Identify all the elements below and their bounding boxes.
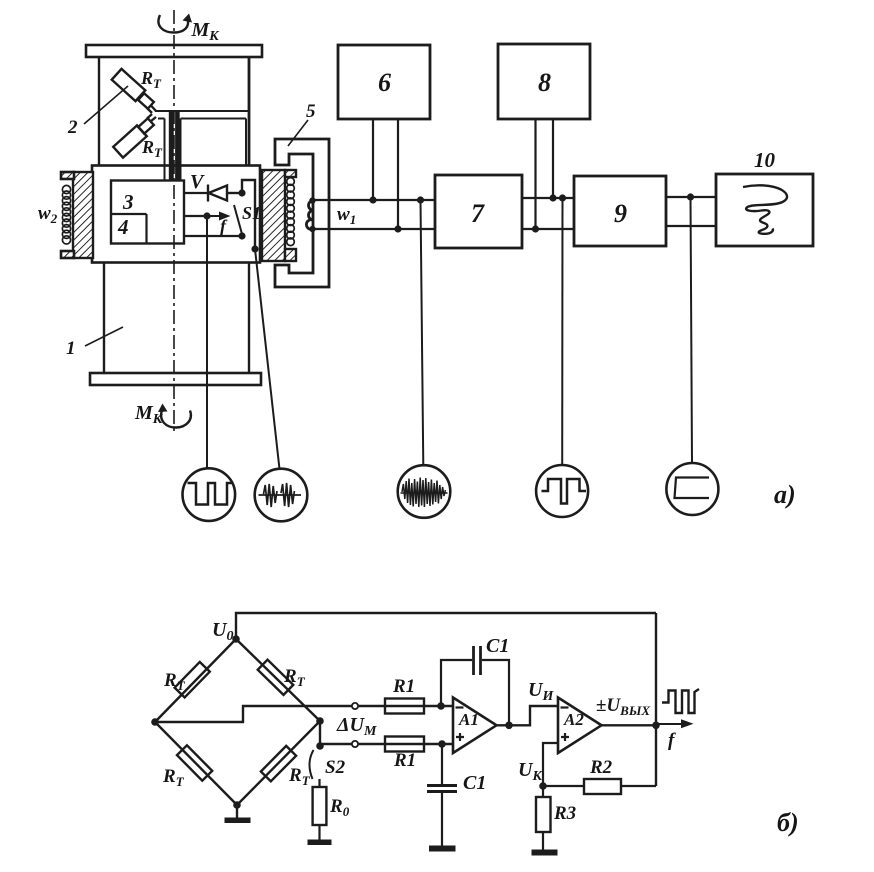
lower cylinder wall left: [103, 263, 105, 374]
output arrow f: [656, 719, 694, 751]
junction dot block6 left lead: [369, 196, 376, 203]
leader and label 5: [288, 101, 316, 146]
resistor R_T bottom-left: [177, 745, 212, 780]
drop wire to waveform circle 3: [421, 200, 424, 466]
lower output wire: [320, 743, 453, 745]
junction dot A1 inverting input: [437, 702, 445, 710]
drop wire to waveform circle 5: [691, 197, 693, 463]
main sensor housing block: [92, 166, 260, 263]
coil w2 turns: [62, 185, 70, 244]
signal bus top wire w1 to block 7: [313, 199, 436, 201]
resistor R1 upper: [385, 676, 424, 714]
resistor R_T top-left: [175, 662, 210, 698]
block 8: [498, 44, 590, 229]
wires block7 to block9: [522, 197, 574, 199]
junction dot block6 right lead: [394, 225, 401, 232]
arrow f: [207, 212, 231, 237]
svg-text:R2: R2: [589, 757, 613, 778]
svg-text:C1: C1: [486, 635, 509, 657]
junction dot diode-S1: [238, 189, 245, 196]
torque arrow M_K bottom: [134, 402, 191, 428]
right core coil turns: [287, 178, 295, 246]
svg-text:A1: A1: [458, 710, 479, 729]
junction dot circle4 tap: [559, 194, 566, 201]
leader and label 1: [66, 327, 123, 359]
bridge arm top-right: [236, 639, 320, 721]
bridge arm bottom-right: [237, 721, 320, 805]
bridge bottom ground: [225, 805, 251, 823]
waveform circle 5 dc level: [666, 463, 718, 515]
resistor R3: [536, 786, 576, 832]
junction dot A1 output feedback tap: [505, 722, 513, 730]
node U0 dot: [232, 635, 240, 643]
junction dot S1 bus bottom: [251, 245, 258, 252]
leader and label 2: [67, 86, 128, 138]
resistor R_T top-right: [258, 660, 294, 695]
thermistor R_T lower: [113, 114, 156, 158]
lower cylinder wall right: [248, 263, 250, 374]
bridge arm top-left: [155, 639, 236, 722]
signal bus bottom wire w1 to block 7: [313, 228, 436, 230]
diode V wire from box 3: [184, 192, 208, 194]
block 9: [574, 176, 666, 246]
resistor R_T bottom-right: [261, 746, 296, 781]
drop wire to waveform circle 2: [255, 249, 280, 469]
diode V: [208, 185, 242, 202]
node dot lower output: [316, 742, 324, 750]
R3 ground: [532, 832, 558, 856]
drop wire to waveform circle 1: [206, 216, 208, 468]
shunt capacitor C1 branch: [427, 744, 486, 852]
resistor R0: [313, 779, 350, 825]
junction dot circle3 tap: [417, 196, 424, 203]
svg-text:10: 10: [754, 148, 776, 172]
coil w2 core hatched: [61, 172, 93, 258]
svg-text:a): a): [774, 480, 796, 509]
waveform circle 1 square pulses: [183, 468, 236, 521]
waveform circle 4 square pulses: [536, 465, 588, 517]
switch S1 blade: [234, 205, 242, 234]
junction dot output node: [652, 722, 660, 730]
R0 ground: [308, 825, 332, 845]
A2 output wire: [602, 724, 657, 726]
right magnet core hatched: [262, 170, 296, 261]
right node stub down: [319, 721, 321, 746]
output square wave glyph: [662, 689, 699, 713]
inner box 4 divider: [111, 214, 147, 244]
top feedback wire from U0: [236, 613, 656, 639]
op-amp A1: [453, 698, 497, 754]
bottom plate of housing: [90, 373, 261, 385]
svg-text:C1: C1: [463, 772, 486, 794]
pickup coil w1 loops: [306, 201, 313, 230]
A2 non-inverting input wire to U_K: [543, 743, 558, 786]
lower wire box3 to S1 contact: [184, 235, 242, 237]
svg-text:R3: R3: [553, 803, 576, 824]
bridge right node dot: [316, 717, 324, 725]
waveform circle 3 noise: [398, 465, 451, 518]
svg-text:1: 1: [66, 338, 76, 359]
svg-text:5: 5: [306, 101, 316, 122]
resistor R2: [543, 757, 656, 794]
drop wire to waveform circle 4: [561, 198, 563, 465]
svg-text:9: 9: [614, 199, 627, 228]
junction dot A1 non-inverting input: [438, 740, 446, 748]
svg-text:R1: R1: [393, 750, 416, 771]
op-amp A2: [558, 698, 602, 754]
waveform circle 2 noise bursts: [255, 469, 308, 522]
svg-text:7: 7: [471, 199, 485, 228]
block 6: [338, 45, 430, 229]
A1 output wire with step: [497, 706, 559, 725]
wire bracket to S1 bus: [242, 180, 255, 249]
svg-text:3: 3: [122, 190, 134, 214]
svg-text:V: V: [190, 171, 205, 193]
svg-text:4: 4: [117, 215, 129, 239]
w1 wire junction dots: [309, 197, 315, 203]
torsion shaft bars: [169, 112, 180, 181]
junction dot block8 right lead: [549, 194, 556, 201]
terminal circle lower: [352, 741, 358, 747]
torque arrow M_K top: [158, 14, 220, 45]
thermistor R_T upper: [112, 69, 156, 113]
bridge arm bottom-left: [155, 722, 237, 805]
junction dot block8 left lead: [532, 225, 539, 232]
block 10: [716, 148, 813, 246]
wires block9 to block10: [666, 196, 716, 198]
svg-text:R1: R1: [392, 676, 415, 697]
feedback capacitor C1 branch: [441, 635, 509, 725]
switch S2 blade: [309, 750, 313, 779]
upper cylinder wall left: [98, 57, 100, 166]
junction dot f node: [203, 212, 210, 219]
f output wire from box 3: [184, 215, 207, 217]
svg-text:A2: A2: [563, 710, 584, 729]
oscillogram squiggle in block 10: [743, 185, 787, 234]
svg-text:6: 6: [378, 68, 391, 97]
bridge left node dot: [151, 718, 159, 726]
bridge output middle wire with step: [155, 706, 452, 722]
junction dot circle5 tap: [687, 193, 694, 200]
svg-text:б): б): [777, 808, 799, 837]
top plate of housing 1: [86, 45, 262, 57]
inner shelf upper compartment: [155, 111, 249, 181]
axis centerline: [173, 10, 175, 434]
svg-text:2: 2: [67, 117, 78, 138]
resistor R1 lower: [385, 737, 424, 772]
block 7: [435, 175, 522, 248]
junction dot S1 lower contact: [238, 232, 245, 239]
svg-text:S1: S1: [242, 203, 261, 223]
upper cylinder wall right: [248, 57, 251, 166]
feedback wire right vertical: [655, 613, 657, 786]
bridge bottom node dot: [233, 801, 241, 809]
junction dot U_K: [539, 782, 547, 790]
svg-text:S2: S2: [325, 757, 346, 778]
yoke bracket 5: [275, 139, 329, 287]
inner box 3: [111, 181, 184, 244]
svg-text:8: 8: [538, 68, 551, 97]
terminal circle upper: [352, 703, 358, 709]
